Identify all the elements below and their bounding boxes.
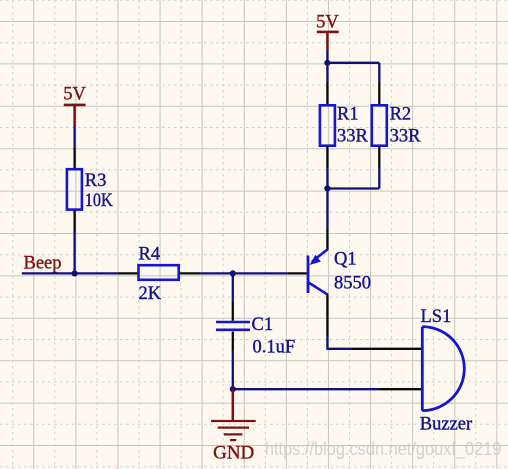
svg-text:GND: GND — [213, 443, 254, 464]
wire split to R2 top — [327, 63, 379, 82]
value 0.1uF — [253, 337, 296, 357]
wire split to R1 top — [326, 63, 328, 82]
svg-text:R3: R3 — [85, 171, 107, 191]
wire node to Q1 base — [233, 272, 288, 274]
transistor Q1 body — [307, 250, 328, 295]
wire node to C1 — [232, 273, 234, 302]
junction node ground rail — [230, 386, 236, 392]
label Buzzer — [420, 415, 472, 435]
label R2 — [390, 104, 412, 124]
label R3 — [85, 171, 107, 191]
label LS1 — [421, 307, 452, 327]
wire ground rail to buzzer — [233, 388, 379, 390]
pin R4.1 — [118, 272, 138, 274]
wire R3 to Beep node — [73, 232, 75, 274]
value 33R (R2) — [390, 126, 422, 146]
power symbol 5V (left) — [63, 85, 86, 125]
svg-text:R2: R2 — [390, 104, 412, 124]
label Q1 — [334, 250, 357, 270]
pin Q1 emitter — [326, 229, 328, 250]
value 33R (R1) — [337, 126, 369, 146]
wire 5V to R3 — [73, 125, 75, 148]
svg-text:8550: 8550 — [334, 274, 371, 294]
power symbol 5V (right) — [316, 12, 339, 50]
svg-text:LS1: LS1 — [421, 307, 452, 327]
junction node base — [230, 270, 236, 276]
pin Q1 collector — [326, 295, 328, 336]
ground GND symbol — [211, 389, 256, 440]
resistor R1 — [320, 105, 335, 145]
svg-text:0.1uF: 0.1uF — [253, 337, 296, 357]
junction node 5V split — [324, 60, 330, 66]
resistor R2 — [372, 105, 387, 145]
resistor R3 — [67, 169, 82, 209]
wire collector down — [327, 336, 352, 350]
pin R2.1 — [378, 82, 380, 105]
pin Q1 base — [288, 272, 307, 274]
svg-text:10K: 10K — [85, 191, 114, 211]
svg-text:C1: C1 — [252, 315, 274, 335]
svg-text:Beep: Beep — [24, 253, 62, 273]
value 10K — [85, 191, 114, 211]
wire R1 bottom to join — [326, 168, 328, 189]
wire join to Q1 emitter — [326, 189, 328, 230]
pin R2.2 — [378, 147, 380, 168]
pin LS1.2 — [379, 388, 421, 390]
junction node Beep — [72, 270, 78, 276]
label R1 — [337, 104, 359, 124]
pin R1.1 — [326, 82, 328, 105]
resistor R4 — [139, 265, 179, 280]
svg-text:Q1: Q1 — [334, 250, 357, 270]
capacitor C1 — [216, 322, 250, 330]
net label GND — [213, 443, 254, 464]
junction node emitter net — [324, 185, 330, 191]
svg-text:33R: 33R — [390, 126, 422, 146]
svg-text:5V: 5V — [63, 85, 86, 105]
svg-text:https://blog.csdn.net/gouxf_02: https://blog.csdn.net/gouxf_0219 — [265, 438, 502, 460]
value 8550 — [334, 274, 371, 294]
value 2K — [139, 284, 162, 304]
pin R3.1 — [73, 148, 75, 169]
label R4 — [139, 245, 161, 265]
pin C1.2 — [232, 332, 234, 351]
pin R4.2 — [179, 272, 199, 274]
svg-text:R4: R4 — [139, 245, 161, 265]
svg-text:R1: R1 — [337, 104, 359, 124]
wire C1 to ground node — [232, 351, 234, 389]
pin LS1.1 — [353, 348, 422, 350]
label C1 — [252, 315, 274, 335]
pin C1.1 — [232, 302, 234, 321]
buzzer LS1 body — [422, 327, 464, 411]
wire Beep horizontal — [22, 272, 118, 274]
svg-text:Buzzer: Buzzer — [420, 415, 472, 435]
svg-text:5V: 5V — [316, 12, 339, 32]
pin R3.2 — [73, 211, 75, 232]
svg-text:2K: 2K — [139, 284, 162, 304]
svg-text:33R: 33R — [337, 126, 369, 146]
wire R2 bottom to join — [327, 168, 379, 189]
watermark — [265, 438, 502, 460]
wire R4 to node — [200, 272, 233, 274]
pin R1.2 — [326, 147, 328, 168]
wire 5V to split node — [326, 50, 328, 63]
net label Beep — [24, 253, 62, 273]
